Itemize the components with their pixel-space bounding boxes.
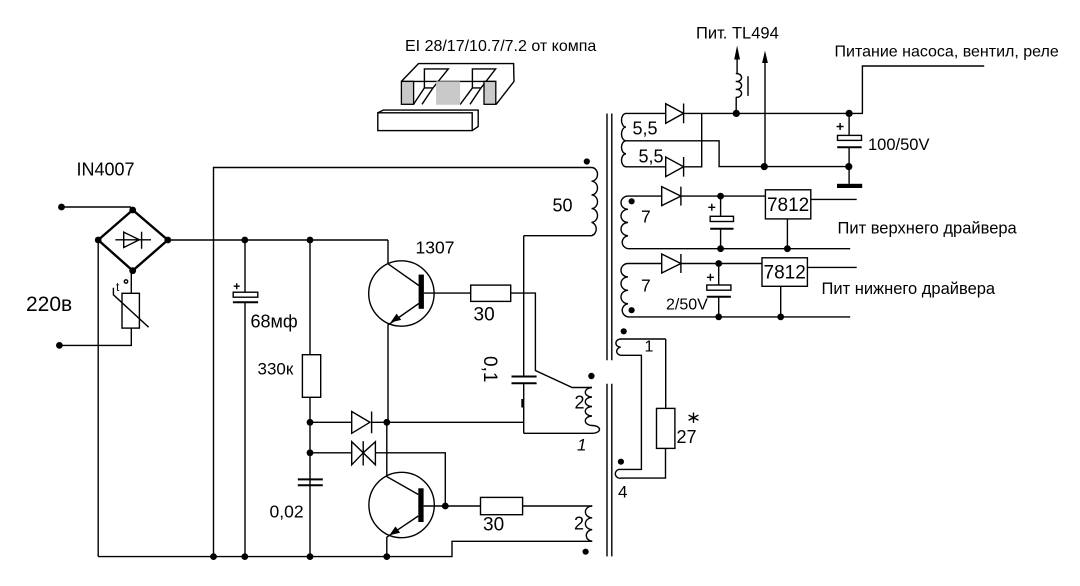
winding 5,5 second [622, 141, 627, 167]
Q2 base wire [424, 505, 481, 507]
resistor 30 top [471, 285, 511, 301]
wire w7-1 top [628, 195, 662, 197]
svg-text:EI 28/17/10.7/7.2 от компа: EI 28/17/10.7/7.2 от компа [405, 38, 596, 55]
diode D top2 [666, 157, 684, 177]
regulator 7812 bottom box [762, 258, 807, 287]
diode D7-1 [662, 187, 681, 206]
transistor Q2 circle [369, 472, 434, 537]
svg-text:7812: 7812 [764, 263, 806, 284]
wire AC top lead [62, 206, 132, 208]
wire 7812-2 output [807, 266, 856, 268]
EI core center leg [436, 81, 460, 104]
diode D7-2 [662, 254, 681, 273]
plus sign cap1 [708, 204, 715, 211]
node cap100 bottom [845, 163, 852, 170]
wire 7812-1 output [811, 198, 857, 200]
svg-text:50: 50 [553, 196, 573, 216]
inductor to TL494 [735, 57, 738, 113]
plus sign 68мф [234, 283, 240, 289]
svg-text:30: 30 [474, 305, 495, 326]
capacitor 68мф [244, 240, 246, 292]
wire bridge bottom to thermistor [131, 271, 132, 294]
EI core window 1 [424, 69, 448, 88]
EI core window 2 [472, 69, 495, 88]
node rail 330k chain [307, 553, 314, 560]
regulator 7812 top box [765, 190, 810, 219]
node 7812-1 gnd [784, 245, 791, 252]
node rail x213 [210, 553, 217, 560]
svg-text:1: 1 [645, 339, 654, 356]
Q2 base bar [418, 488, 423, 522]
winding 7 first [621, 196, 628, 249]
svg-text:7812: 7812 [767, 195, 809, 216]
EI core inner diagonals [414, 88, 481, 105]
svg-text:2: 2 [575, 393, 585, 413]
inductor core bar [747, 76, 749, 96]
resistor 27 [657, 408, 675, 448]
phase dot winding 4 [618, 459, 624, 465]
transformer core upper [607, 114, 612, 361]
EI core E piece outline [401, 64, 514, 105]
EI core left leg [401, 81, 413, 104]
wire diode2 up to output [684, 113, 702, 166]
capacitor 2/50V [718, 264, 720, 286]
resistor 330к [309, 240, 311, 355]
asterisk [689, 413, 699, 423]
phase dot winding 7-1 [629, 198, 635, 204]
wire output line y113 [684, 66, 985, 113]
svg-text:2: 2 [574, 514, 584, 534]
svg-text:Пит нижнего драйвера: Пит нижнего драйвера [822, 280, 996, 298]
svg-text:27: 27 [677, 427, 697, 447]
svg-text:30: 30 [483, 515, 504, 536]
svg-text:0,1: 0,1 [479, 356, 500, 382]
node 7812-2 gnd [777, 314, 784, 321]
node arrow2 on return line [761, 163, 768, 170]
svg-text:220в: 220в [26, 293, 72, 316]
capacitor 100/50V [848, 113, 850, 135]
transistor Q1 1307 circle [369, 261, 434, 326]
node AC bottom terminal [56, 342, 63, 349]
wire center tap [626, 141, 849, 167]
wire 7812-1 gnd [786, 219, 788, 249]
phase dot winding 2 [588, 373, 594, 379]
node diac left [307, 449, 314, 456]
diac VD2 [310, 453, 445, 506]
capacitor 7812-1 input [720, 196, 722, 216]
diode D1 [310, 421, 524, 423]
svg-text:5,5: 5,5 [633, 119, 658, 139]
node Q2 base [442, 503, 449, 510]
wire main + rail [168, 239, 388, 241]
bottom ground rail [98, 541, 592, 556]
capacitor 0,02 [298, 479, 323, 485]
phase dot winding 50 [584, 158, 590, 164]
wire section3 return [628, 316, 850, 318]
Q2 emitter arrow [389, 526, 400, 535]
node cap7812-2 bottom [715, 314, 722, 321]
svg-text:2/50V: 2/50V [666, 297, 708, 314]
svg-text:0,02: 0,02 [270, 502, 304, 522]
Q2 collector wire [387, 422, 419, 494]
arrow 2 line [764, 60, 766, 167]
svg-text:330к: 330к [258, 360, 294, 379]
svg-text:Пит верхнего драйвера: Пит верхнего драйвера [838, 220, 1018, 238]
phase dot winding 7-2 [629, 307, 635, 313]
node bridge left [95, 237, 102, 244]
node cap7812-1 top [717, 193, 724, 200]
Q1 base bar [419, 275, 424, 309]
node midpoint on D1 wire [383, 419, 390, 426]
svg-text:7: 7 [641, 276, 651, 296]
diode symbol inside bridge [115, 232, 151, 249]
node diode D1 left [307, 419, 314, 426]
Q1 base wire [424, 292, 471, 294]
transformer core lower [607, 384, 612, 557]
Q1 emitter wire [388, 304, 419, 423]
winding 1-4 top loop [615, 339, 665, 478]
node AC top terminal [58, 204, 65, 211]
svg-text:1307: 1307 [416, 238, 455, 258]
winding 7 second [621, 264, 628, 317]
Q2 emitter wire [387, 516, 419, 557]
winding 2 bottom [585, 506, 592, 541]
ground bar [837, 184, 862, 188]
phase dot winding 1 [621, 328, 627, 334]
node rail 68mf [241, 553, 248, 560]
wire 7812-2 gnd [780, 286, 782, 317]
winding 2 drive top [524, 388, 600, 434]
wire winding2 bottom to diode [626, 166, 666, 168]
Q1 emitter arrow [391, 314, 402, 323]
node cap7812-1 bottom [717, 245, 724, 252]
wire top rail from vertical to winding 50 [214, 168, 592, 557]
node rail Q2 emitter [383, 553, 390, 560]
diode D top1 [666, 104, 684, 124]
arrow 1 [734, 46, 740, 60]
wire diode to 7812-2 [681, 263, 762, 265]
winding 5,5 first [622, 113, 627, 140]
node cap100 top [846, 110, 853, 117]
node inductor tap [733, 110, 740, 117]
thermistor t° box [122, 293, 139, 328]
winding 50 [524, 168, 598, 236]
plus sign 100/50V [837, 123, 844, 130]
node cap7812-2 top [715, 260, 722, 267]
svg-text:Пит. TL494: Пит. TL494 [696, 25, 779, 43]
svg-text:Питание насоса, вентил, реле: Питание насоса, вентил, реле [835, 44, 1059, 61]
EI core I bar [378, 113, 472, 131]
svg-text:1: 1 [577, 436, 586, 455]
node bridge top [129, 207, 136, 214]
svg-text:5,5: 5,5 [639, 147, 664, 167]
stray mark [521, 399, 524, 408]
bridge rectifier VD1 IN4007 diamond [98, 210, 168, 271]
node bridge bottom [129, 267, 136, 274]
wire winding1 top to diode [626, 112, 666, 114]
plus sign 2/50V [707, 274, 714, 281]
wire w7-2 top [628, 263, 662, 265]
wire R30b to winding [523, 505, 593, 507]
EI core right leg [484, 81, 496, 104]
wire R30 to winding 2 diagonal [511, 293, 592, 387]
svg-text:4: 4 [618, 483, 627, 502]
svg-text:68мф: 68мф [251, 312, 298, 332]
node 330k tap [307, 237, 314, 244]
node 68mf tap [241, 237, 248, 244]
wire bridge left to bottom rail [97, 240, 99, 557]
svg-text:100/50V: 100/50V [868, 136, 929, 154]
node bridge right [164, 237, 171, 244]
wire section2 return [628, 248, 850, 250]
arrow 2 head [762, 51, 768, 63]
capacitor 0,1 [523, 236, 525, 376]
resistor 30 bottom [481, 497, 523, 514]
svg-text:IN4007: IN4007 [77, 160, 135, 180]
phase dot winding 2 bottom [583, 549, 589, 555]
wire diode to 7812-1 [681, 195, 766, 197]
thermistor diagonal stroke [113, 288, 148, 327]
Q1 collector wire [388, 240, 419, 286]
svg-text:7: 7 [641, 207, 651, 227]
wire AC bottom lead [59, 328, 131, 345]
